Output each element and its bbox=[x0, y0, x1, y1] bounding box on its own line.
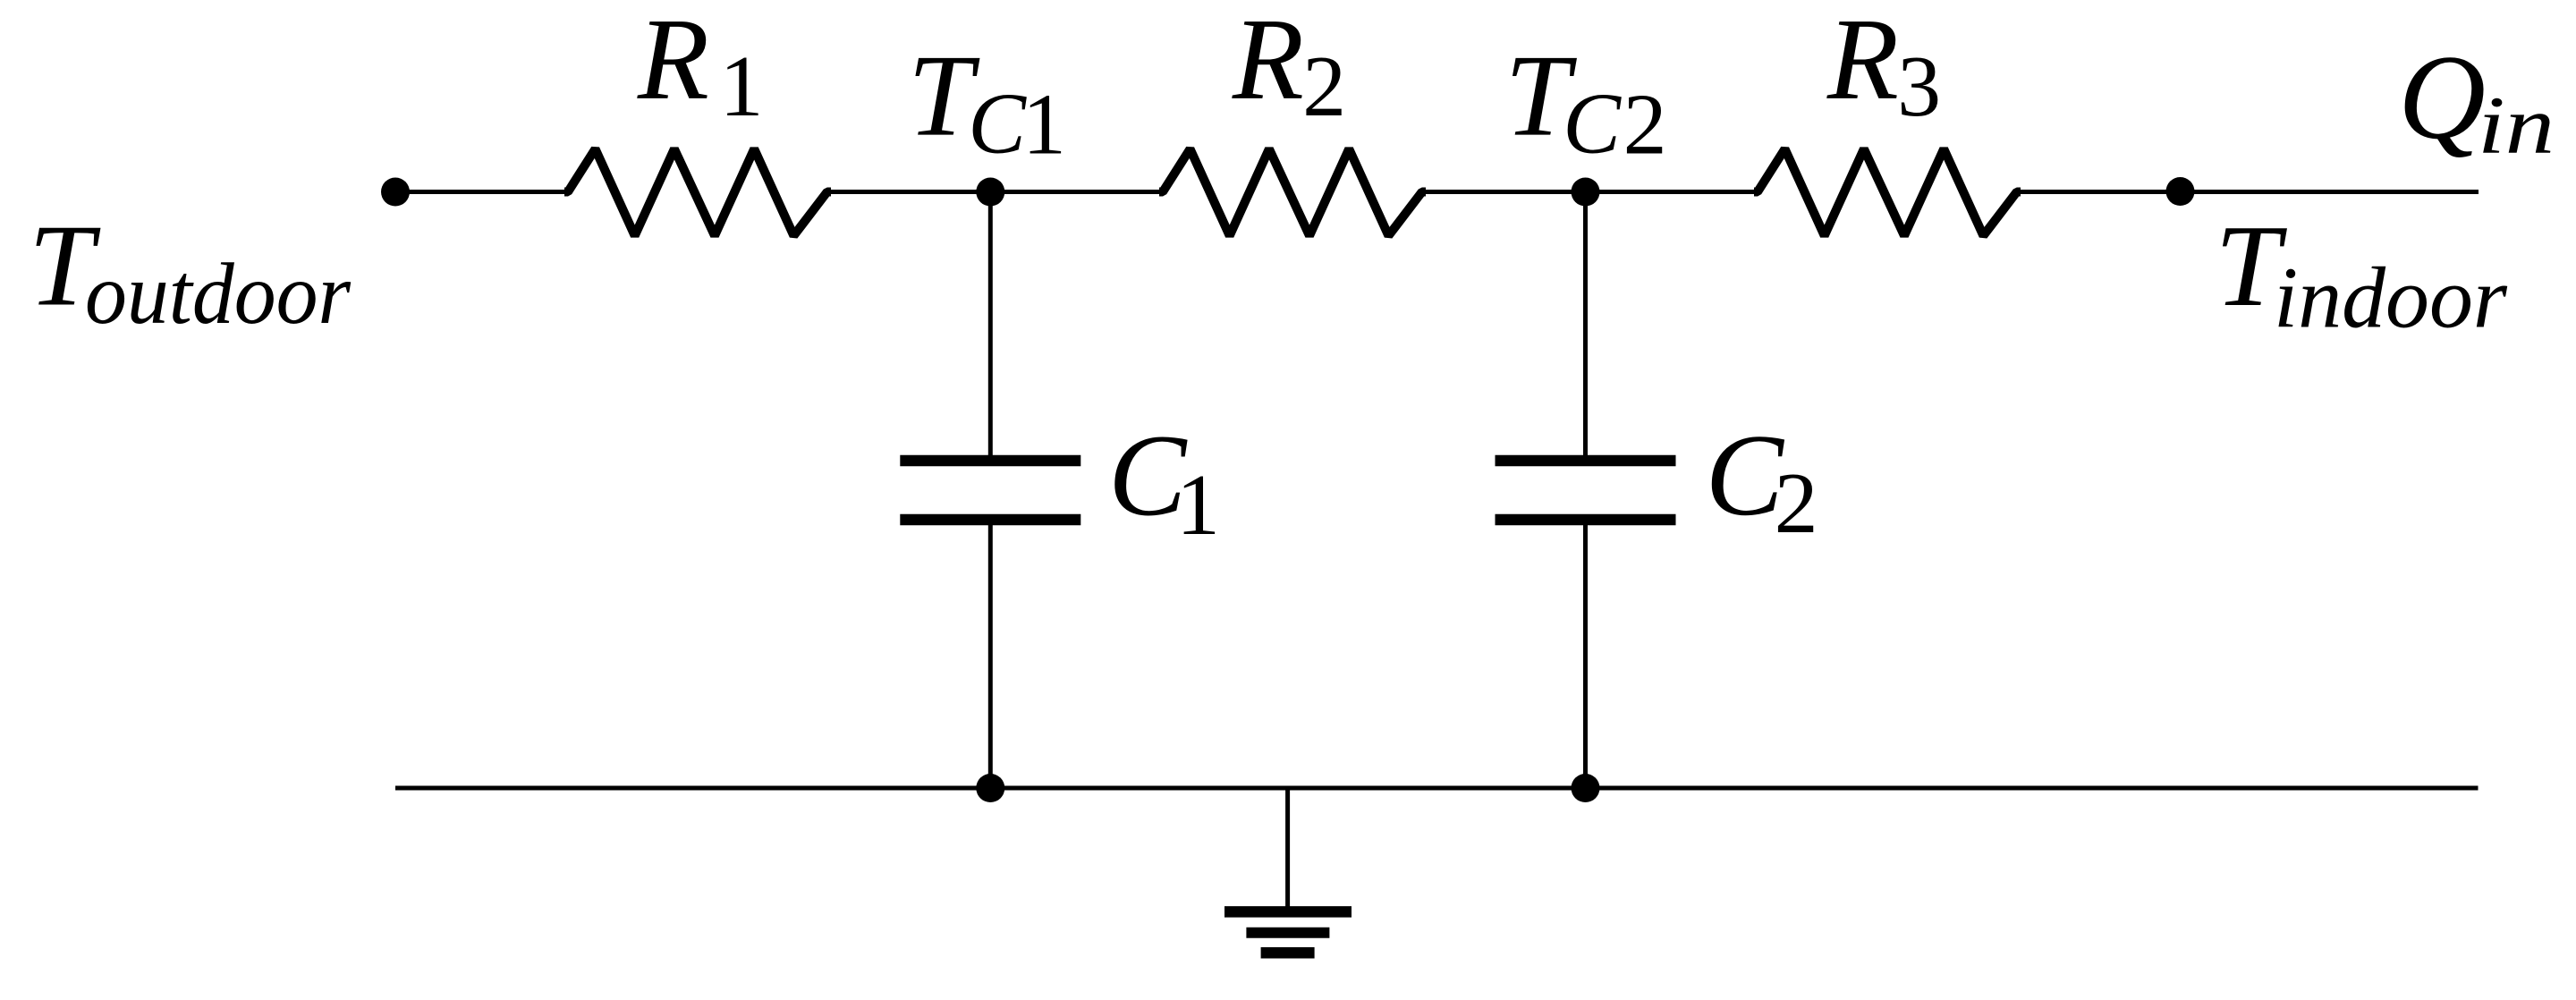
wire bottom rail bbox=[395, 786, 2479, 791]
wire C2 upper leg bbox=[1583, 192, 1588, 456]
svg-text:indoor: indoor bbox=[2274, 250, 2508, 346]
node TC1 junction dot bbox=[976, 178, 1004, 207]
svg-text:1: 1 bbox=[1022, 77, 1066, 174]
label T_indoor bbox=[2215, 201, 2508, 346]
wire between R1 and R2 bbox=[827, 190, 1163, 194]
svg-text:Q: Q bbox=[2398, 30, 2486, 165]
node C1-bottom junction dot bbox=[976, 774, 1004, 802]
wire C1 lower leg bbox=[988, 525, 993, 789]
svg-text:R: R bbox=[637, 0, 709, 124]
svg-text:C: C bbox=[1563, 76, 1622, 172]
wire C2 lower leg bbox=[1583, 525, 1588, 789]
label Q_in bbox=[2398, 30, 2555, 171]
ground bbox=[1224, 911, 1352, 953]
svg-text:C: C bbox=[1706, 411, 1785, 540]
capacitor C1 bbox=[900, 461, 1080, 520]
svg-text:1: 1 bbox=[1176, 457, 1220, 554]
wire C1 upper leg bbox=[988, 192, 993, 456]
label C1 bbox=[1108, 411, 1220, 554]
svg-text:2: 2 bbox=[1623, 77, 1667, 174]
svg-text:3: 3 bbox=[1897, 38, 1941, 135]
svg-text:outdoor: outdoor bbox=[85, 246, 352, 342]
node C2-bottom junction dot bbox=[1572, 774, 1600, 802]
node Toutdoor terminal dot bbox=[381, 178, 410, 207]
wire top-left segment bbox=[395, 190, 568, 194]
capacitor C2 bbox=[1496, 461, 1676, 520]
node Tindoor terminal dot bbox=[2166, 177, 2195, 206]
label R2 bbox=[1232, 0, 1346, 135]
svg-text:1: 1 bbox=[720, 38, 764, 135]
wire between R2 and R3 bbox=[1422, 190, 1758, 194]
wire right segment to Qin bbox=[2017, 190, 2479, 194]
svg-text:2: 2 bbox=[1302, 38, 1346, 135]
resistor R2 bbox=[1159, 149, 1426, 236]
svg-text:in: in bbox=[2478, 80, 2555, 171]
label C2 bbox=[1706, 411, 1818, 552]
svg-text:C: C bbox=[968, 76, 1027, 172]
svg-text:2: 2 bbox=[1775, 455, 1818, 552]
resistor R1 bbox=[564, 149, 831, 236]
label T_C2 bbox=[1504, 31, 1666, 174]
svg-text:R: R bbox=[1826, 0, 1899, 124]
resistor R3 bbox=[1754, 149, 2021, 236]
node TC2 junction dot bbox=[1572, 178, 1600, 207]
svg-text:R: R bbox=[1232, 0, 1304, 124]
label R1 bbox=[637, 0, 764, 135]
ground stem wire bbox=[1285, 788, 1290, 907]
label T_outdoor bbox=[29, 201, 352, 343]
label T_C1 bbox=[908, 31, 1066, 174]
label R3 bbox=[1826, 0, 1941, 135]
